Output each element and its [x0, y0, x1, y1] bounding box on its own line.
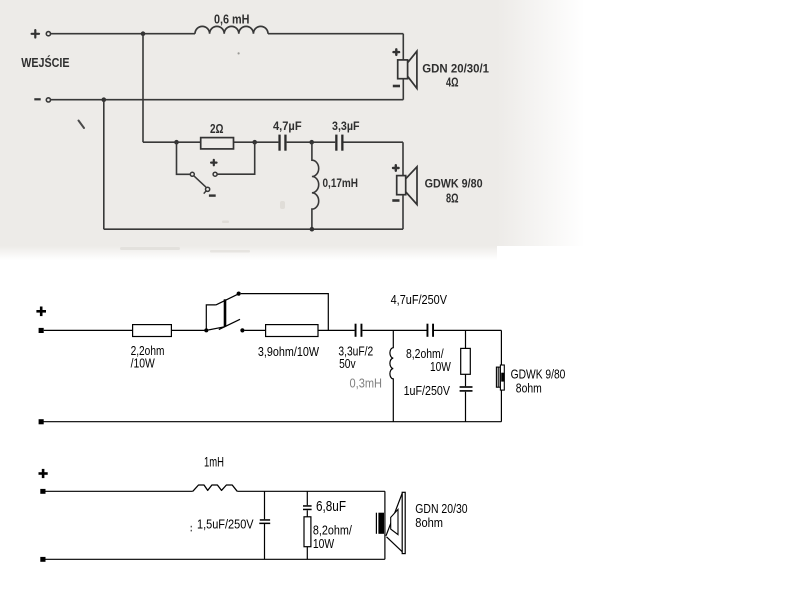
svg-text:0,17mH: 0,17mH: [323, 178, 359, 190]
terminal square ground mid: [39, 419, 44, 424]
scan background: [0, 0, 585, 260]
minus mark speaker GDN: [393, 85, 400, 88]
wire to speaker GDN: [402, 34, 404, 60]
svg-text:10W: 10W: [430, 360, 451, 374]
node switch top contact: [237, 292, 241, 296]
colon speck: [191, 526, 192, 532]
node junction top: [141, 31, 146, 36]
resistor 3,9ohm: [266, 325, 318, 337]
wire bypass top: [241, 294, 328, 331]
switch scan: left lead: [177, 142, 191, 174]
wire vertical to mid branch: [142, 34, 144, 143]
plus mark mid schematic: [36, 307, 46, 317]
wire left vertical to ground rail: [103, 100, 105, 230]
svg-text:8Ω: 8Ω: [446, 192, 459, 206]
switch scan: blade: [194, 176, 206, 187]
wire mid main left: [44, 329, 133, 331]
plus terminal mark top input: [32, 30, 39, 37]
terminal circle - input: [46, 98, 50, 102]
minus mark speaker GDWK scan: [392, 199, 399, 202]
speaker GDN 20/30/1: [398, 51, 417, 88]
switch scan: blade tick: [204, 191, 207, 194]
inductor 0,6mH: [195, 26, 268, 33]
wire to cap 3,3uF: [318, 329, 355, 331]
svg-text:2Ω: 2Ω: [210, 122, 224, 136]
switch scan: right contact circle: [213, 172, 217, 176]
svg-text:1mH: 1mH: [204, 455, 224, 470]
svg-text:0,6 mH: 0,6 mH: [214, 12, 250, 26]
svg-text:3,3µF: 3,3µF: [332, 121, 360, 133]
capacitor 4,7uF: [278, 135, 286, 151]
svg-text:0,3mH: 0,3mH: [350, 377, 383, 391]
node junction mid left: [174, 140, 179, 145]
svg-text:6,8uF: 6,8uF: [316, 498, 346, 515]
inductor 0,17mH: [312, 142, 319, 229]
capacitor 1,5uF plates: [259, 519, 270, 524]
node junction caps: [309, 140, 314, 145]
capacitor 3,3uF/250: [355, 324, 363, 337]
speaker GDWK 9/80 scan: [397, 167, 417, 205]
speaker GDWK mid icon: [496, 365, 504, 390]
wire right branch bottom: [384, 491, 386, 559]
svg-text:8ohm: 8ohm: [516, 382, 542, 396]
terminal square ground bottom: [40, 557, 45, 562]
svg-text:4,7uF/250V: 4,7uF/250V: [391, 293, 448, 307]
svg-text:8,2ohm/: 8,2ohm/: [406, 347, 444, 361]
speck below inductor label: [238, 52, 240, 54]
capacitor 1uF/250V: [460, 386, 473, 392]
smudge marks: [120, 201, 285, 253]
svg-text:4Ω: 4Ω: [446, 76, 459, 90]
capacitor 3,3uF: [335, 135, 343, 151]
plus mark speaker GDN: [394, 49, 400, 55]
wire top rail right: [268, 33, 403, 35]
node switch bottom contact: [240, 328, 244, 332]
switch mid: frame: [206, 305, 225, 331]
wire bottom main right: [237, 490, 385, 492]
svg-text:4,7µF: 4,7µF: [273, 121, 302, 133]
resistor 2,2ohm: [133, 325, 172, 337]
resistor 8,2ohm box: [461, 348, 471, 374]
svg-text:GDWK 9/80: GDWK 9/80: [425, 177, 483, 191]
wire right branch mid: [500, 330, 502, 421]
node junction mid right of resistor: [252, 140, 257, 145]
switch mid: blade lower: [219, 319, 240, 329]
terminal square + bottom: [40, 489, 45, 494]
svg-text:8,2ohm/: 8,2ohm/: [313, 524, 352, 538]
wire ground rail bottom: [46, 558, 385, 560]
terminal square + mid: [39, 328, 44, 333]
wire to 3,9ohm: [245, 329, 266, 331]
svg-text:50v: 50v: [339, 357, 356, 371]
node junction ground rail: [310, 227, 315, 232]
capacitor 4,7uF/250V: [427, 324, 435, 337]
switch mid: thick bar: [224, 299, 227, 326]
svg-text:GDN 20/30/1: GDN 20/30/1: [422, 61, 489, 75]
wire mid branch: [143, 142, 403, 175]
switch mid: blade upper: [216, 294, 239, 305]
wire speaker GDWK to ground rail: [402, 195, 404, 230]
svg-text:1uF/250V: 1uF/250V: [404, 384, 451, 398]
wire bottom main left: [46, 490, 193, 492]
resistor 8,2ohm bottom box: [304, 517, 311, 547]
capacitor 1,5uF branch: [264, 491, 266, 559]
terminal circle + input: [46, 32, 50, 36]
svg-text:GDWK 9/80: GDWK 9/80: [511, 368, 566, 382]
svg-text:/10W: /10W: [131, 357, 155, 371]
resistor 8,2ohm branch: [465, 330, 467, 421]
switch minus mark: [209, 194, 216, 196]
wire top rail left: [51, 33, 195, 35]
svg-text:WEJŚCIE: WEJŚCIE: [21, 55, 69, 70]
plus mark speaker GDWK scan: [393, 165, 399, 171]
switch plus mark: [211, 160, 216, 165]
capacitor 6,8uF branch: [306, 491, 308, 559]
capacitor 6,8uF plates: [303, 505, 312, 510]
wire bottom input rail: [51, 99, 404, 101]
wire to switch: [171, 329, 206, 331]
switch scan: right lead: [217, 142, 255, 174]
svg-text:GDN 20/30: GDN 20/30: [415, 502, 467, 516]
switch scan: blade end circle: [206, 187, 210, 191]
node junction bottom input: [102, 97, 107, 102]
scratch mark: [79, 121, 85, 129]
inductor 1mH: [193, 485, 237, 491]
svg-text:3,9ohm/10W: 3,9ohm/10W: [258, 345, 319, 359]
wire cap to right: [434, 329, 501, 331]
plus mark bottom schematic: [39, 469, 48, 478]
inductor 0,3mH: [390, 330, 393, 421]
speaker GDN magnet: [376, 513, 384, 534]
wire cap to 4,7 cap: [362, 329, 426, 331]
wire ground rail scan: [104, 228, 403, 230]
minus terminal mark input: [34, 98, 40, 100]
wire ground rail mid: [41, 421, 501, 423]
node switch pole: [204, 328, 208, 332]
wire speaker GDN to bottom rail: [402, 79, 404, 100]
speaker GDN cone: [386, 492, 405, 553]
resistor 2ohm: [201, 138, 234, 149]
svg-text:1,5uF/250V: 1,5uF/250V: [197, 517, 254, 531]
svg-text:10W: 10W: [313, 537, 334, 551]
svg-text:8ohm: 8ohm: [415, 516, 443, 530]
switch scan: left contact circle: [190, 172, 194, 176]
